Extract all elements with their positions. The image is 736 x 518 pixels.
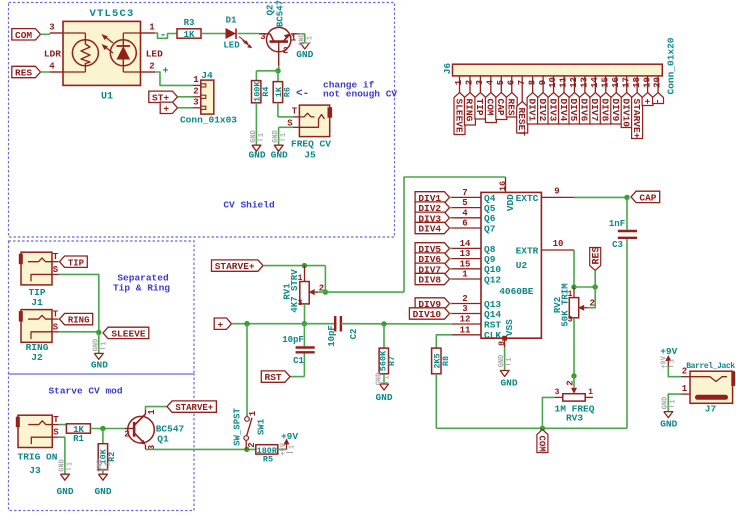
svg-text:GND: GND <box>271 150 288 161</box>
J6 pin label COM <box>485 93 496 123</box>
svg-text:EXTC: EXTC <box>516 193 539 204</box>
U1 pin 1 stub <box>141 32 156 34</box>
svg-text:GND: GND <box>58 459 66 472</box>
svg-text:2: 2 <box>566 380 576 385</box>
svg-text:14: 14 <box>460 239 471 249</box>
wire ST+ to J4 pin2 <box>178 96 194 98</box>
svg-text:3: 3 <box>462 304 467 314</box>
wire wiper to VDD net <box>318 291 404 293</box>
J6 pin label DIV1 <box>527 93 538 125</box>
wire STARVE+ drop to wiper net <box>324 266 326 293</box>
svg-text:COM: COM <box>485 99 496 116</box>
svg-text:RES: RES <box>592 246 603 264</box>
svg-text:1: 1 <box>288 445 296 449</box>
global label COM <box>12 29 41 40</box>
svg-text:VSS: VSS <box>504 319 515 336</box>
J6 pin 8 <box>532 76 534 93</box>
J6 pin 12 <box>573 76 575 93</box>
svg-text:3: 3 <box>49 23 54 33</box>
J6 pin 5 <box>500 76 502 93</box>
junction COM node <box>540 426 545 431</box>
svg-text:1: 1 <box>669 399 677 403</box>
J6 pin label DIV7 <box>590 93 601 125</box>
svg-text:CAP: CAP <box>495 99 506 116</box>
svg-text:R4: R4 <box>261 87 271 97</box>
svg-text:Conn_01x20: Conn_01x20 <box>665 37 676 94</box>
J6 pin 7 <box>521 76 523 102</box>
U2 pin 4 Q6 <box>452 217 481 219</box>
barrel jack J7 body <box>690 371 733 403</box>
J6 pin label RES <box>506 93 517 118</box>
J6 pin label DIV6 <box>579 93 590 125</box>
svg-text:10: 10 <box>548 77 558 88</box>
junction sleeve node <box>96 330 101 335</box>
svg-text:1: 1 <box>291 34 297 44</box>
wire U1 pin1 to R3 with dip <box>155 33 177 38</box>
svg-text:S: S <box>53 322 59 332</box>
svg-text:DIV4: DIV4 <box>558 99 569 122</box>
svg-text:VTL5C3: VTL5C3 <box>89 8 134 20</box>
svg-text:T: T <box>53 310 59 320</box>
wire Q1 collector to STARVE+ <box>146 407 168 410</box>
U2 pin 3 Q14 <box>452 313 481 315</box>
svg-text:TIP: TIP <box>68 258 85 268</box>
svg-text:16: 16 <box>611 77 621 88</box>
capacitor C1 10pF <box>303 324 305 347</box>
wire R1 to base junction <box>90 428 124 430</box>
global label ST+ <box>149 91 178 102</box>
J6 pin label SLEEVE <box>454 93 465 135</box>
J6 pin 3 <box>479 76 481 93</box>
ground below R2 <box>98 474 107 480</box>
junction SW1 branch <box>244 321 249 326</box>
J6 pin label DIV10 <box>621 93 632 128</box>
global label DIV1 <box>415 192 449 203</box>
resistor R5 180R <box>256 445 278 454</box>
junction above RV3 <box>571 373 576 378</box>
svg-text:<-: <- <box>296 88 309 100</box>
svg-text:GND: GND <box>91 360 108 371</box>
wire R3 to D1 <box>201 33 226 35</box>
svg-text:DIV10: DIV10 <box>620 99 631 128</box>
svg-text:R1: R1 <box>73 434 84 444</box>
U1 LED internal pin lines <box>123 32 140 34</box>
IC U2 body <box>481 192 541 338</box>
junction SW1 bottom <box>244 447 249 452</box>
svg-text:5: 5 <box>496 80 506 85</box>
svg-text:J6: J6 <box>442 63 453 75</box>
diode D1 LED <box>226 28 237 39</box>
junction C3 top <box>624 195 629 200</box>
svg-text:GND: GND <box>375 392 392 403</box>
svg-text:+9V: +9V <box>280 442 288 455</box>
svg-text:4K7 STRV: 4K7 STRV <box>290 269 300 313</box>
wire Q2 base down <box>278 66 280 71</box>
svg-text:5: 5 <box>462 198 467 208</box>
svg-text:GND: GND <box>500 378 517 389</box>
wire + to J4 pin3 <box>178 107 194 109</box>
wire COM to U1 pin3 <box>41 33 51 35</box>
wire C3 down to bottom rail <box>626 239 628 428</box>
wire CLK to R8 <box>436 335 452 348</box>
wire STARVE+ to RV1 <box>263 265 325 267</box>
junction R1/R2/base <box>100 426 105 431</box>
svg-text:RESET: RESET <box>516 108 527 137</box>
ground below sleeve <box>94 353 103 359</box>
svg-text:DIV8: DIV8 <box>418 275 441 286</box>
svg-text:4: 4 <box>462 208 468 218</box>
J6 pin 1 <box>459 76 461 93</box>
svg-text:1: 1 <box>193 75 199 85</box>
trimmer RV2 50K TRIM <box>573 287 575 298</box>
J6 pin 10 <box>553 76 555 93</box>
wire D1 to Q2 <box>238 33 260 35</box>
svg-text:GND: GND <box>94 486 111 497</box>
svg-text:1K: 1K <box>184 30 195 40</box>
svg-text:DIV7: DIV7 <box>589 99 600 122</box>
svg-text:7: 7 <box>517 80 527 85</box>
svg-text:D1: D1 <box>226 16 237 26</box>
global label STARVE+ (bottom) <box>167 401 216 412</box>
wire J1 S to sleeve node <box>59 274 99 332</box>
wire to R4 <box>256 70 278 72</box>
J6 pin 11 <box>563 76 565 93</box>
J3 pin T <box>52 424 58 426</box>
J6 pin label RESET <box>517 102 528 134</box>
svg-text:R6: R6 <box>282 87 292 97</box>
svg-text:DIV8: DIV8 <box>600 99 611 122</box>
ground at Q2 <box>300 43 309 49</box>
svg-text:J4: J4 <box>201 70 213 81</box>
svg-text:1: 1 <box>306 36 314 40</box>
wire DIV7 to U2 <box>450 268 453 270</box>
wire DIV1 to U2 <box>450 196 453 198</box>
svg-text:TRIG ON: TRIG ON <box>18 452 58 463</box>
J6 pin 19 <box>647 76 649 93</box>
J5 contacts <box>299 113 314 117</box>
svg-text:1: 1 <box>100 341 108 345</box>
svg-text:+9V: +9V <box>660 346 677 357</box>
J6 pin label RING <box>464 93 475 126</box>
J6 pin label + <box>642 93 653 106</box>
svg-text:U1: U1 <box>101 92 113 103</box>
svg-text:9: 9 <box>538 80 548 85</box>
J6 pin label DIV9 <box>611 93 622 125</box>
svg-text:8: 8 <box>527 80 537 85</box>
svg-text:3: 3 <box>193 98 198 108</box>
svg-text:T: T <box>53 252 59 262</box>
wire J3 S to GND <box>59 437 65 474</box>
svg-text:Q2: Q2 <box>266 5 276 16</box>
resistor R6 1K <box>273 82 282 103</box>
ground below J7 <box>664 412 673 418</box>
resistor R1 1K <box>66 424 90 433</box>
svg-text:RV3: RV3 <box>566 413 583 424</box>
transistor Q2 BC547 <box>267 27 291 51</box>
svg-text:C3: C3 <box>612 240 623 250</box>
U2 pin 14 Q8 <box>452 247 481 249</box>
global label RES (left) <box>12 66 41 77</box>
wire C2 to RST pin <box>341 323 452 325</box>
svg-text:DIV2: DIV2 <box>537 99 548 122</box>
J6 pin 17 <box>626 76 628 93</box>
svg-text:GND: GND <box>96 459 104 472</box>
svg-text:12: 12 <box>460 315 471 325</box>
svg-text:FREQ CV: FREQ CV <box>291 139 331 150</box>
connector J6 bar <box>453 64 663 76</box>
svg-text:U2: U2 <box>516 260 528 271</box>
svg-text:GND: GND <box>298 33 306 46</box>
J6 pin 9 <box>542 76 544 93</box>
ground below R7 <box>380 384 389 390</box>
wire junction to R6 <box>277 71 279 82</box>
svg-text:+: + <box>217 319 223 330</box>
svg-text:1: 1 <box>248 410 258 416</box>
svg-text:3: 3 <box>555 388 560 397</box>
global label DIV5 <box>415 243 449 254</box>
svg-text:LDR: LDR <box>44 49 61 60</box>
svg-text:C2: C2 <box>349 329 359 340</box>
svg-text:16: 16 <box>498 181 508 191</box>
resistor R8 2K5 <box>432 348 441 374</box>
svg-text:4060BE: 4060BE <box>499 286 534 297</box>
global label SLEEVE <box>103 327 149 338</box>
wire to C3 <box>626 197 628 229</box>
svg-text:VDD: VDD <box>505 194 516 211</box>
J6 pin 18 <box>636 76 638 93</box>
U2 pin 11 CLK <box>452 334 481 336</box>
svg-text:6: 6 <box>462 219 467 229</box>
global label + (plus rail) <box>214 318 231 329</box>
svg-text:R3: R3 <box>184 18 195 28</box>
J4 pin stubs <box>193 84 201 86</box>
svg-text:RES: RES <box>506 99 517 116</box>
wire plus rail down to SW1 <box>246 324 248 415</box>
wire R5 to +9V <box>278 448 287 450</box>
svg-text:CAP: CAP <box>639 193 656 204</box>
U1 pin 4 stub <box>50 71 63 73</box>
svg-text:1: 1 <box>462 270 468 280</box>
junction RES node <box>593 284 598 289</box>
svg-text:+: + <box>163 103 169 114</box>
resistor R4 100K <box>252 81 261 103</box>
capacitor C3 1nF <box>618 230 637 232</box>
svg-text:1: 1 <box>147 409 157 415</box>
svg-text:50K TRIM: 50K TRIM <box>560 283 570 326</box>
global label + (J4 pin3) <box>160 102 177 113</box>
U1 LDR internal pin lines <box>63 32 85 34</box>
svg-text:Starve CV mod: Starve CV mod <box>48 386 122 397</box>
power +9V at R5 <box>286 443 288 449</box>
svg-text:1: 1 <box>588 388 593 397</box>
svg-text:10pF: 10pF <box>327 325 337 347</box>
U2 pin 2 Q13 <box>452 303 481 305</box>
svg-text:not enough CV: not enough CV <box>323 89 397 100</box>
global label CAP <box>631 191 660 202</box>
J6 pin 13 <box>584 76 586 93</box>
U2 pin 16 VDD <box>505 177 507 192</box>
resistor R3 <box>177 29 201 38</box>
svg-text:CLK: CLK <box>484 330 501 341</box>
wire DIV2 to U2 <box>450 207 453 209</box>
wire DIV9 to U2 <box>450 303 453 305</box>
ground below R4 <box>252 145 261 151</box>
junction RV1/C1 on plus line <box>302 321 307 326</box>
J7 sleeve contact <box>695 395 728 400</box>
wire R7 to GND <box>383 374 385 384</box>
transistor Q1 BC547 <box>128 416 155 443</box>
svg-text:19: 19 <box>642 77 652 88</box>
global label DIV10 <box>409 308 449 319</box>
wire Q1 emitter to SW1 <box>146 448 256 450</box>
svg-text:9: 9 <box>554 186 559 196</box>
wire RES to U1 pin4 <box>41 71 51 73</box>
jack J2 RING body <box>21 310 52 343</box>
resistor R7 560K <box>383 324 385 348</box>
svg-text:J7: J7 <box>705 404 717 415</box>
potentiometer RV1 4K7 STRV <box>304 266 306 282</box>
svg-text:2: 2 <box>193 87 198 97</box>
svg-text:GND: GND <box>56 486 73 497</box>
svg-text:STARVE+: STARVE+ <box>175 403 213 413</box>
svg-text:GND: GND <box>272 130 280 143</box>
global label DIV6 <box>415 253 449 264</box>
global label DIV2 <box>415 202 449 213</box>
svg-text:20: 20 <box>653 77 663 88</box>
global label DIV3 <box>415 212 449 223</box>
wire RV2 pin3 down to RV3 wiper <box>573 318 575 376</box>
svg-text:14: 14 <box>590 77 600 88</box>
svg-text:1: 1 <box>454 79 464 85</box>
svg-text:6: 6 <box>506 80 516 85</box>
svg-text:1: 1 <box>383 375 391 379</box>
svg-text:13: 13 <box>580 77 590 88</box>
svg-text:Conn_01x03: Conn_01x03 <box>180 115 237 126</box>
J6 pin label DIV2 <box>538 93 549 125</box>
ground below J5 <box>274 145 283 151</box>
J6 pin label - <box>653 93 664 104</box>
J6 pin label DIV4 <box>559 93 570 125</box>
wire Q2 pin1 to GND <box>297 33 305 35</box>
wire plus rail <box>232 323 337 325</box>
resistor R2 10K <box>102 429 104 444</box>
junction on wiper wire <box>323 289 328 294</box>
svg-text:2: 2 <box>283 46 288 56</box>
svg-text:1: 1 <box>682 384 688 394</box>
U1 LDR element <box>72 40 98 66</box>
power +9V at J7 <box>667 360 669 366</box>
svg-text:10: 10 <box>553 239 564 249</box>
optocoupler U1 body <box>63 21 141 85</box>
Separated Tip and Ring section border <box>9 241 195 374</box>
U2 pin 7 Q4 <box>452 196 481 198</box>
J6 pin label DIV3 <box>548 93 559 125</box>
wire R4 to GND <box>255 103 257 145</box>
J2 pin S <box>52 331 59 333</box>
svg-text:4: 4 <box>486 79 496 85</box>
svg-text:RING: RING <box>464 99 475 122</box>
U2 pin 1 Q12 <box>452 278 481 280</box>
global label DIV7 <box>415 263 449 274</box>
svg-text:R8: R8 <box>441 356 451 366</box>
J6 pin 15 <box>605 76 607 93</box>
svg-text:8: 8 <box>497 341 507 346</box>
svg-text:SW1: SW1 <box>257 418 267 435</box>
svg-text:BC547: BC547 <box>276 0 286 27</box>
J6 pin label TIP <box>475 93 486 120</box>
svg-text:1: 1 <box>668 359 676 363</box>
svg-text:S: S <box>53 265 59 275</box>
global label COM (bottom) <box>537 430 548 453</box>
svg-text:DIV1: DIV1 <box>526 99 537 122</box>
svg-text:SLEEVE: SLEEVE <box>111 329 146 340</box>
U2 pin 6 Q7 <box>452 227 481 229</box>
svg-text:CV Shield: CV Shield <box>223 200 275 211</box>
junction EXTR node <box>571 284 576 289</box>
svg-text:LED: LED <box>146 49 163 60</box>
U1 light arrows <box>104 36 113 43</box>
svg-text:GND: GND <box>661 397 669 410</box>
svg-text:DIV5: DIV5 <box>568 99 579 122</box>
svg-text:DIV9: DIV9 <box>610 99 621 122</box>
svg-text:+: + <box>641 99 652 105</box>
J6 pin 2 <box>469 76 471 93</box>
svg-text:GND: GND <box>375 373 383 386</box>
svg-text:15: 15 <box>460 259 471 269</box>
U2 pin 8 VSS <box>504 338 506 347</box>
U1 pin 2 stub <box>141 71 156 73</box>
svg-text:J3: J3 <box>29 465 41 476</box>
svg-text:13: 13 <box>460 249 471 259</box>
svg-text:DIV10: DIV10 <box>413 309 442 320</box>
bottom rail wire <box>436 427 627 429</box>
J6 pin 14 <box>594 76 596 93</box>
svg-text:11: 11 <box>460 325 471 335</box>
J7 pin1 to GND <box>681 393 690 395</box>
J6 pin 20 <box>657 76 659 93</box>
J7 top contact <box>690 377 727 382</box>
global label DIV8 <box>415 273 449 284</box>
wire EXTR down <box>573 250 575 287</box>
wire J3 T to R1 <box>59 424 67 426</box>
wire RES to node <box>594 271 596 288</box>
svg-text:Q14: Q14 <box>484 309 501 320</box>
wire DIV3 to U2 <box>450 217 453 219</box>
svg-text:GND: GND <box>498 355 506 368</box>
jack J1 TIP body <box>21 252 52 285</box>
svg-text:DIV3: DIV3 <box>547 99 558 122</box>
U2 pin 13 Q9 <box>452 258 481 260</box>
svg-text:RST: RST <box>265 372 282 383</box>
svg-text:GND: GND <box>248 150 265 161</box>
J6 pin label CAP <box>496 93 507 120</box>
global label DIV4 <box>415 222 449 233</box>
wire R8 to bottom rail <box>435 374 437 429</box>
svg-text:10pF: 10pF <box>282 335 304 345</box>
svg-text:Q1: Q1 <box>157 434 169 445</box>
J6 pin label DIV5 <box>569 93 580 125</box>
svg-text:Q7: Q7 <box>484 223 496 234</box>
svg-text:11: 11 <box>559 77 569 88</box>
U2 pin 9 EXTC <box>541 196 574 198</box>
svg-text:J1: J1 <box>31 297 43 308</box>
potentiometer RV3 1M FREQ <box>563 394 585 401</box>
J6 pin 16 <box>615 76 617 93</box>
svg-text:COM: COM <box>536 436 546 452</box>
svg-text:4: 4 <box>49 62 55 72</box>
wire RV2 wiper to node <box>587 287 595 308</box>
wire R2 to GND <box>102 470 104 475</box>
